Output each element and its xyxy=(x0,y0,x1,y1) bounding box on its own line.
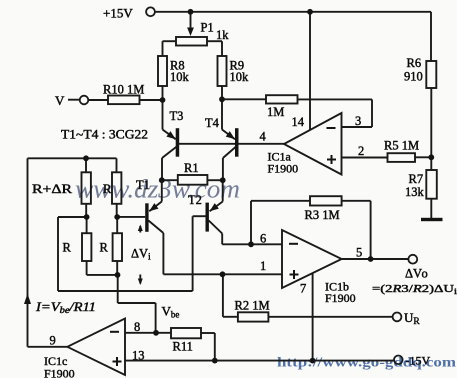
svg-text:R3 1M: R3 1M xyxy=(305,208,340,222)
svg-text:T4: T4 xyxy=(205,116,220,130)
svg-text:R: R xyxy=(100,241,109,255)
svg-text:ΔVi: ΔVi xyxy=(131,247,151,262)
svg-text:R10 1M: R10 1M xyxy=(103,83,144,97)
svg-text:R: R xyxy=(63,241,72,255)
svg-text:R: R xyxy=(103,182,112,196)
svg-text:910: 910 xyxy=(404,70,423,84)
svg-text:1M: 1M xyxy=(267,105,284,119)
svg-text:R1: R1 xyxy=(184,161,199,175)
svg-text:+15V: +15V xyxy=(103,6,133,21)
svg-text:5: 5 xyxy=(356,246,362,260)
svg-text:R11: R11 xyxy=(173,340,193,354)
svg-text:7: 7 xyxy=(300,282,306,296)
svg-text:1: 1 xyxy=(260,259,266,273)
svg-text:4: 4 xyxy=(260,130,267,144)
svg-text:6: 6 xyxy=(260,232,266,246)
svg-text:V: V xyxy=(55,93,65,108)
svg-text:=(2R3/R2)ΔUi: =(2R3/R2)ΔUi xyxy=(372,283,457,296)
svg-text:ΔVo: ΔVo xyxy=(405,267,428,281)
svg-text:10k: 10k xyxy=(230,70,250,84)
svg-text:Vbe: Vbe xyxy=(162,304,180,320)
svg-text:www.dz3w.com: www.dz3w.com xyxy=(75,175,240,204)
svg-text:I=Vbe/R11: I=Vbe/R11 xyxy=(35,300,96,315)
svg-text:13: 13 xyxy=(132,349,145,363)
svg-text:R7: R7 xyxy=(409,172,424,186)
svg-text:F1900: F1900 xyxy=(268,162,299,176)
svg-text:9: 9 xyxy=(50,334,56,348)
svg-text:R+ΔR: R+ΔR xyxy=(32,182,73,196)
svg-text:14: 14 xyxy=(292,115,305,129)
svg-text:P1: P1 xyxy=(201,21,214,35)
svg-text:R5 1M: R5 1M xyxy=(384,139,419,153)
svg-text:10k: 10k xyxy=(170,70,190,84)
svg-text:3: 3 xyxy=(355,114,361,128)
svg-text:T1: T1 xyxy=(136,178,150,192)
svg-text:-15V: -15V xyxy=(406,354,431,368)
svg-text:T3: T3 xyxy=(170,109,184,123)
svg-text:13k: 13k xyxy=(405,185,425,199)
svg-text:UR: UR xyxy=(404,310,420,327)
svg-text:F1900: F1900 xyxy=(44,367,75,378)
svg-text:T2: T2 xyxy=(188,193,202,207)
svg-text:F1900: F1900 xyxy=(325,291,356,305)
svg-text:8: 8 xyxy=(134,320,140,334)
svg-text:2: 2 xyxy=(358,144,364,158)
svg-text:R2 1M: R2 1M xyxy=(235,299,270,313)
svg-text:R6: R6 xyxy=(407,56,422,70)
svg-text:T1~T4 : 3CG22: T1~T4 : 3CG22 xyxy=(61,128,148,142)
svg-text:1k: 1k xyxy=(216,28,229,42)
